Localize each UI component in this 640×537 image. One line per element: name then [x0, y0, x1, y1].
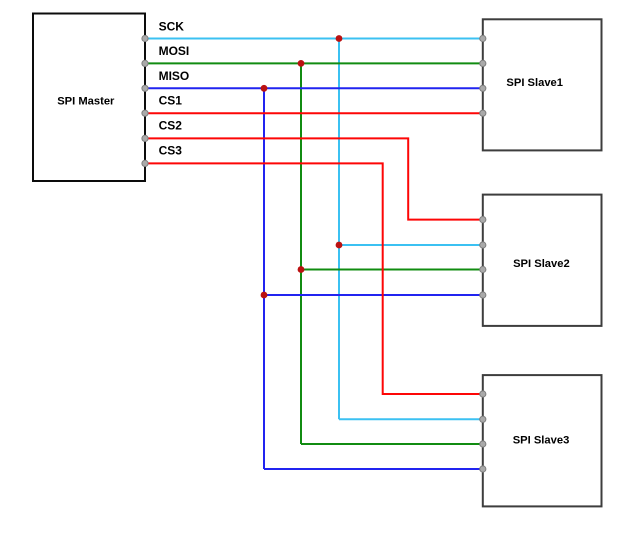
- svg-text:SCK: SCK: [159, 20, 185, 34]
- wire MISO branch to slave2: [264, 294, 483, 296]
- pin SPI Master MOSI: [142, 60, 148, 66]
- pin SPI Master CS2: [142, 135, 148, 141]
- block SPI Master: [33, 14, 145, 182]
- pin SPI Master MISO: [142, 85, 148, 91]
- block SPI Slave1: [483, 19, 602, 150]
- pin SPI Slave1 MOSI: [480, 60, 486, 66]
- wire MISO master to slave1: [145, 87, 483, 89]
- pin SPI Master CS1: [142, 110, 148, 116]
- wire SCK branch to slave3: [339, 418, 483, 420]
- block SPI Slave3: [483, 375, 602, 506]
- junction MOSI-slave2 tap: [298, 266, 305, 273]
- pin SPI Slave2 SCK: [480, 242, 486, 248]
- wire MISO vertical drop: [263, 88, 265, 469]
- junction MISO-slave1 tap: [261, 85, 268, 92]
- junction SCK-slave2 tap: [336, 242, 343, 249]
- svg-text:SPI Slave1: SPI Slave1: [506, 77, 563, 89]
- pin SPI Slave3 MISO: [480, 466, 486, 472]
- pin SPI Master CS3: [142, 160, 148, 166]
- pin SPI Slave1 MISO: [480, 85, 486, 91]
- wire MOSI vertical drop: [300, 63, 302, 444]
- wire MOSI branch to slave2: [301, 269, 483, 271]
- pin SPI Slave1 CS1: [480, 110, 486, 116]
- junction MISO-slave2 tap: [261, 292, 268, 299]
- svg-text:SPI Slave2: SPI Slave2: [513, 258, 570, 270]
- wire MOSI branch to slave3: [301, 443, 483, 445]
- wire CS2 master to slave2: [145, 138, 483, 219]
- svg-text:CS2: CS2: [159, 119, 183, 133]
- wire CS3 master to slave3: [145, 163, 483, 394]
- wire SCK branch to slave2: [339, 244, 483, 246]
- wire SCK vertical drop: [338, 39, 340, 420]
- wire SCK master to slave1: [145, 38, 483, 40]
- svg-text:SPI Slave3: SPI Slave3: [513, 434, 570, 446]
- wire CS1 master to slave1: [145, 112, 483, 114]
- pin SPI Slave2 MOSI: [480, 266, 486, 272]
- pin SPI Slave2 CS2: [480, 217, 486, 223]
- wire MOSI master to slave1: [145, 62, 483, 64]
- pin SPI Slave3 MOSI: [480, 441, 486, 447]
- svg-text:MOSI: MOSI: [159, 44, 190, 58]
- pin SPI Slave2 MISO: [480, 292, 486, 298]
- pin SPI Master SCK: [142, 35, 148, 41]
- junction MOSI-slave1 tap: [298, 60, 305, 67]
- svg-text:MISO: MISO: [159, 69, 190, 83]
- wire MISO branch to slave3: [264, 468, 483, 470]
- svg-text:CS1: CS1: [159, 94, 183, 108]
- pin SPI Slave3 CS3: [480, 391, 486, 397]
- svg-text:SPI Master: SPI Master: [57, 96, 115, 108]
- junction SCK-slave1 tap: [336, 35, 343, 42]
- pin SPI Slave1 SCK: [480, 35, 486, 41]
- svg-text:CS3: CS3: [159, 143, 183, 157]
- pin SPI Slave3 SCK: [480, 416, 486, 422]
- block SPI Slave2: [483, 195, 602, 326]
